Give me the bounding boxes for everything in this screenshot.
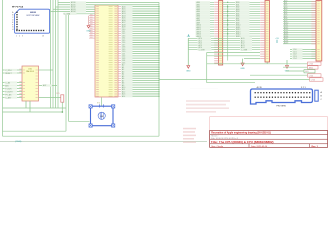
wire vertical bus at x159 [158, 2, 160, 136]
svg-text:P_BUSY: P_BUSY [5, 91, 13, 93]
IC U10 body [22, 66, 39, 101]
U9 left pin stubs [89, 14, 95, 38]
wire net B4 to RP2 [283, 9, 316, 11]
wire net BB10 to RP2 [223, 24, 260, 27]
wire net AD3 from U9 pin 4 [118, 12, 160, 15]
wire net B18 to RP2 [283, 40, 316, 42]
wire net A3 into U9 left [53, 8, 95, 11]
wire net D20 from U9 pin 21 [118, 50, 160, 53]
wire net AC4 to RP2 [188, 46, 260, 49]
wire y75.2 [250, 74, 308, 76]
wire net AD0 from U9 pin 1 [118, 5, 160, 8]
power flag GND at x232 [240, 59, 245, 70]
wire net A9 from U9 pin 36 [118, 84, 160, 87]
wire net BB7 to RP2 [223, 17, 260, 20]
connector J1 right key [315, 90, 318, 101]
wire net AB15 to RP1 [196, 35, 215, 38]
wire net AD1 from U9 pin 2 [118, 8, 160, 11]
svg-text:C706: C706 [309, 75, 313, 77]
wire net P_BUS into U10 [3, 87, 26, 90]
wire net AB7 to RP1 [196, 17, 215, 20]
Y1 corner pads [89, 105, 115, 127]
wire net A2 from U9 pin 29 [118, 68, 160, 71]
wire net A8 from U9 pin 35 [118, 82, 160, 85]
svg-text:13: 13 [42, 36, 44, 38]
wire net PV_AS into U10 [3, 93, 26, 96]
wire net B2 to RP2 [283, 5, 316, 7]
oscillator Y1 wire stub [101, 98, 103, 107]
svg-text:Recreation of Apple engineerin: Recreation of Apple engineering drawing … [211, 132, 271, 135]
wire net BB3 to RP2 [223, 8, 260, 11]
svg-text:1: 1 [16, 36, 17, 38]
wire y82.7 to connector [207, 82, 255, 84]
wire net C_GBR to RP2 [188, 48, 260, 51]
wire y131.2 [3, 130, 67, 132]
wire net BB5 to RP2 [223, 12, 260, 15]
wire net B14 to RP2 [283, 31, 316, 33]
wire net AV0 into U10 [3, 84, 26, 87]
U9 pin numbers left column [96, 6, 99, 97]
wire net A4 from U9 pin 31 [118, 73, 160, 76]
oscillator Y1 designator [97, 103, 104, 108]
wire net A0 from U9 pin 27 [118, 64, 160, 67]
svg-text:C_IPL0: C_IPL0 [5, 70, 11, 72]
wire net A12 from U9 pin 39 [118, 90, 160, 93]
wire net D10 from U9 pin 11 [118, 28, 160, 31]
svg-text:C_GBR: C_GBR [199, 49, 206, 51]
wire net A14 from U9 pin 41 [118, 95, 160, 98]
wire y136.2 [3, 135, 160, 137]
wire net B10 to RP2 [283, 23, 316, 25]
wire net B11 to RP2 [283, 25, 316, 27]
Y1 crystal circle [98, 112, 105, 119]
RP1 pin numbers column [214, 2, 218, 64]
wire net AC1 to RP2 [188, 39, 260, 42]
wire net A0 into U9 left [58, 1, 95, 4]
wire vertical bus V3 [55, 0, 57, 108]
svg-text:(CB-B): (CB-B) [15, 141, 22, 143]
wire net AB4 to RP1 [196, 10, 215, 13]
wire vertical bus V6 [65, 14, 67, 131]
svg-text:F: F [12, 24, 13, 26]
U10 bottom pin stubs [26, 101, 30, 112]
svg-text:PIN VIEW: PIN VIEW [276, 106, 285, 108]
wire net P_BUSY into U10 [3, 90, 26, 93]
wire net D25 from U9 pin 26 [118, 62, 160, 65]
wire net AB1 to RP1 [196, 3, 215, 6]
wire net B13 to RP2 [283, 29, 316, 31]
wire vertical x206.7 [206, 52, 208, 82]
wire net AB14 to RP1 [196, 33, 215, 36]
svg-text:GND: GND [86, 31, 91, 33]
U9 pin numbers right column [114, 6, 117, 97]
svg-text:Rev: 1: Rev: 1 [312, 146, 319, 148]
wire net A1 from U9 pin 28 [118, 66, 160, 69]
wire long row y79.6 [159, 79, 310, 81]
wire net AD4 from U9 pin 5 [118, 14, 160, 17]
power flag GND at x188 [186, 38, 191, 72]
wire net A7 from U9 pin 34 [118, 79, 160, 82]
wire net BB11 to RP2 [223, 26, 260, 29]
RP1 interior marks [219, 2, 222, 64]
resistor R25 [56, 93, 64, 112]
wire net B15 to RP2 [283, 34, 316, 36]
wire vertical bus at x227.7 [227, 5, 229, 61]
wire net D11 from U9 pin 12 [118, 30, 160, 33]
wire left vertical bus [2, 0, 4, 136]
wire net C_GBA into U9 left [63, 12, 95, 15]
wire net A5 from U9 pin 32 [118, 75, 160, 78]
CPU U9 68030 body [95, 5, 118, 97]
wire net B16 to RP2 [283, 36, 316, 38]
svg-text:C_A0: C_A0 [5, 81, 10, 84]
wire net D14 from U9 pin 15 [118, 37, 160, 40]
svg-text:AV0: AV0 [5, 84, 8, 87]
wire net AB9 to RP1 [196, 21, 215, 24]
wire net D22 from U9 pin 23 [118, 55, 160, 58]
P6 PGA title text [27, 12, 40, 17]
svg-text:C_AST: C_AST [5, 96, 12, 99]
wire bus row y4.75 [95, 4, 159, 6]
wire net AB6 to RP1 [196, 15, 215, 18]
RP1 body [219, 1, 223, 66]
svg-text:. . . . . . . . . . . . . . .: . . . . . . . . . . . . . . . . . . . . … [190, 88, 218, 90]
notes box above title block [210, 117, 328, 131]
wire net B8 to RP2 [283, 18, 316, 20]
svg-text:Title: The CPU (68030) & FPU (: Title: The CPU (68030) & FPU (68881/6888… [211, 140, 274, 144]
wire vertical bus V4 [57, 0, 59, 108]
wire net AD5 from U9 pin 6 [118, 17, 160, 20]
wire net AD7 from U9 pin 8 [118, 21, 160, 24]
power flag GND near U9 left [86, 16, 91, 33]
wire y112 [3, 111, 63, 113]
svg-text:GND: GND [186, 71, 191, 73]
power symbol +5V at x277 [275, 38, 279, 43]
svg-text:B: B [12, 15, 13, 17]
wire vertical bus V7 [68, 14, 70, 122]
wire net C4 to RP2 lower [290, 57, 316, 60]
net label C706 [308, 62, 322, 66]
wire net B7 to RP2 [283, 16, 316, 18]
RP2 body [265, 1, 270, 63]
wire net AC2 to RP2 [188, 42, 260, 45]
svg-text:C706: C706 [309, 64, 313, 66]
connector J1 pins row 2 [255, 97, 311, 98]
wire net B17 to RP2 [283, 38, 316, 40]
connector J1 labels top [257, 87, 307, 89]
title block text: size/date/rev [211, 145, 318, 148]
svg-text:C_GBA: C_GBA [64, 12, 71, 15]
RP2 interior marks [317, 1, 319, 59]
svg-text:BB15: BB15 [236, 36, 240, 38]
wire net C0 to RP2 lower [290, 48, 316, 51]
svg-text:A14: A14 [122, 95, 125, 98]
wire net C_A0 into U10 [3, 81, 26, 84]
RP2 body [316, 1, 322, 62]
connector P6 PGA body (bottom view) [15, 9, 50, 33]
wire net A2 into U9 left [56, 6, 96, 9]
wire U10 pin to bus y70 [39, 69, 54, 71]
wire net A10 from U9 pin 37 [118, 86, 160, 89]
wire y108 [3, 107, 67, 109]
wire net D12 from U9 pin 13 [118, 32, 160, 35]
wire net BB2 to RP2 [223, 6, 260, 9]
power flag GND at x287 [285, 60, 290, 73]
wire net A13 from U9 pin 40 [118, 93, 160, 96]
svg-text:P6 PGA: P6 PGA [16, 6, 24, 9]
wire net BB9 to RP2 [223, 21, 260, 24]
wire RP1 pin to net label row y63.8 [207, 62, 308, 64]
wire net BB12 to RP2 [223, 28, 260, 31]
wire net A3 from U9 pin 30 [118, 70, 160, 73]
svg-text:P_BUS: P_BUS [5, 88, 12, 90]
wire net A11 from U9 pin 38 [118, 88, 160, 91]
wire net BB6 to RP2 [223, 15, 260, 18]
svg-text:BC0: BC0 [305, 71, 309, 73]
wire net AD9 from U9 pin 10 [118, 26, 160, 29]
wire net D16 from U9 pin 17 [118, 41, 160, 44]
svg-text:68030: 68030 [30, 12, 37, 14]
wire net BB14 to RP2 [223, 33, 260, 36]
title block frame [210, 130, 328, 147]
wire net BB0 to RP2 [223, 1, 260, 4]
wire net BB15 to RP2 [223, 35, 260, 38]
connector J1 outline [251, 89, 313, 104]
svg-text:2: 2 [19, 36, 20, 38]
wire net C2 to RP2 lower [290, 53, 316, 56]
RP2 pin numbers column [311, 1, 315, 59]
RP2 pin numbers column [260, 2, 264, 59]
wire net BB8 to RP2 [223, 19, 260, 22]
svg-text:CD4: CD4 [293, 58, 297, 60]
svg-text:BD19: BD19 [284, 42, 288, 44]
net label BC0 [304, 70, 315, 74]
wire net AC3 to RP2 [188, 44, 260, 47]
wire net RESET into U10 [3, 72, 26, 75]
svg-text:16M: 16M [100, 116, 104, 118]
svg-text:C706: C706 [311, 79, 315, 81]
connector J1 pins row 1 [255, 92, 311, 93]
P6 PGA row letters [12, 11, 14, 31]
wire net D13 from U9 pin 14 [118, 35, 160, 38]
wire net B1 to RP2 [283, 3, 316, 5]
P6 PGA pad row bottom [16, 30, 44, 31]
wire y121.3 to Y1 [69, 120, 90, 122]
wire net D18 from U9 pin 19 [118, 46, 160, 49]
svg-text:PV_AS: PV_AS [5, 93, 12, 96]
wire net AST from U10 y85.5 [39, 84, 58, 87]
wire net BB13 to RP2 [223, 30, 260, 33]
svg-text:A800: A800 [309, 66, 313, 69]
wire net AC0 to RP2 [188, 37, 260, 40]
wire net B6 to RP2 [283, 14, 316, 16]
wire net D17 from U9 pin 18 [118, 44, 160, 47]
wire net D24 from U9 pin 25 [118, 59, 160, 62]
wire net AD8 from U9 pin 9 [118, 23, 160, 26]
P6 PGA pad column left [16, 12, 17, 30]
connector P6 PGA label [12, 6, 23, 9]
junction dot R25 bottom [61, 111, 63, 113]
svg-text:3: 3 [22, 36, 23, 38]
svg-text:Size: Charlie: Size: Charlie [211, 145, 224, 148]
U9 pin names right inside [109, 6, 113, 96]
wire net AB13 to RP1 [196, 30, 215, 33]
wire net C_AST into U10 [3, 96, 26, 99]
RP2 interior marks [266, 2, 269, 59]
wire net C1 to RP2 lower [290, 51, 316, 54]
faint note text rows [186, 100, 230, 112]
wire net B3 to RP2 [283, 7, 316, 9]
wire U10 to R25 y97.5 [39, 97, 63, 99]
wire net A4 into U9 left [51, 10, 96, 13]
wire net D23 from U9 pin 24 [118, 57, 160, 60]
wire net R1 to RP2 [207, 55, 260, 57]
wire net AB8 to RP1 [196, 19, 215, 22]
wire net AD2 from U9 pin 3 [118, 10, 160, 13]
wire y67.2 [283, 66, 308, 68]
wire y71 [286, 70, 304, 72]
wire net D19 from U9 pin 20 [118, 48, 160, 51]
faint note text rows left of title block [183, 128, 196, 143]
wire net AB12 to RP1 [196, 28, 215, 31]
wire net A6 from U9 pin 33 [118, 77, 160, 80]
wire net AB11 to RP1 [196, 26, 215, 29]
wire net B12 to RP2 [283, 27, 316, 29]
wire net to RP2 y58.6 [244, 58, 260, 60]
net label C706 on row y79.6 [310, 78, 324, 82]
wire net AB5 to RP1 [196, 12, 215, 15]
wire vertical bus V2 [52, 0, 54, 108]
P6 PGA column numbers [16, 36, 44, 38]
oscillator Y1 body [91, 106, 114, 126]
wire net AB3 to RP1 [196, 8, 215, 11]
wire net R0 to RP2 [207, 51, 260, 53]
wire net B19 to RP2 [283, 42, 316, 44]
svg-text:E: E [12, 22, 13, 24]
power symbol +5V at x188 [186, 34, 190, 38]
net label A800 [308, 66, 319, 70]
wire net A1 into U9 left [58, 3, 95, 6]
wire net D21 from U9 pin 22 [118, 53, 160, 56]
U10 reference text [26, 68, 34, 73]
wire net AB2 to RP1 [196, 6, 215, 9]
wire net C_IPL0 into U10 [3, 69, 26, 72]
wire vertical bus V1 [50, 0, 52, 108]
wire net BB4 to RP2 [223, 10, 260, 13]
net label C706 [308, 74, 322, 78]
svg-text:PAL20L8: PAL20L8 [26, 70, 34, 73]
svg-text:Date: 2021-05-14: Date: 2021-05-14 [251, 145, 268, 148]
wire y141.4 long [0, 140, 207, 142]
svg-text:RESET: RESET [5, 73, 12, 75]
svg-text:GND: GND [240, 68, 245, 70]
wire net C3 to RP2 lower [290, 55, 316, 58]
wire net AD6 from U9 pin 7 [118, 19, 160, 22]
wire net D15 from U9 pin 16 [118, 39, 160, 42]
U10 right pin marks [36, 70, 38, 98]
svg-text:C_GBR: C_GBR [241, 49, 248, 51]
connector J1 ABC letters [321, 91, 323, 101]
wire net AB10 to RP1 [196, 24, 215, 27]
wire net B0 to RP2 [283, 0, 316, 2]
wire net B5 to RP2 [283, 11, 316, 13]
wire net AB0 to RP1 [196, 1, 215, 4]
wire net B9 to RP2 [283, 20, 316, 22]
svg-text:BOTTOM VIEW: BOTTOM VIEW [27, 15, 40, 17]
wire bus row y2.5 [95, 2, 159, 4]
wire net BB1 to RP2 [223, 3, 260, 6]
